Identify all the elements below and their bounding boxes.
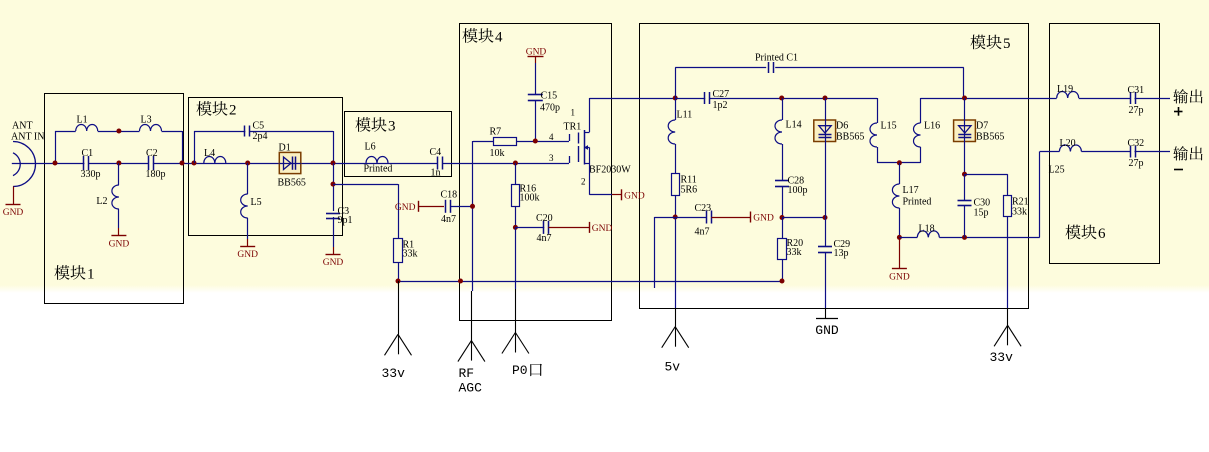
- antenna ANT input: [11, 121, 44, 187]
- node C20 junction: [513, 225, 518, 230]
- wire ground stem L5: [247, 239, 249, 246]
- svg-text:C2: C2: [146, 148, 158, 159]
- diode D7 BB565 varactor: [954, 120, 1005, 143]
- inductor L11: [668, 110, 692, 145]
- svg-text:2: 2: [229, 103, 237, 119]
- node antenna junction: [53, 161, 58, 166]
- svg-text:L25: L25: [1049, 165, 1065, 176]
- wire left branch to bus: [654, 217, 656, 288]
- wire node down to 5v (blue): [675, 217, 677, 308]
- svg-text:GND: GND: [753, 214, 774, 224]
- svg-text:5R6: 5R6: [681, 185, 698, 196]
- node D6 junction: [823, 96, 828, 101]
- wire ground stem C3: [333, 247, 335, 254]
- svg-text:5v: 5v: [665, 360, 681, 375]
- label 模块1: [54, 265, 94, 282]
- svg-text:P0: P0: [512, 363, 528, 378]
- pin 1 label: [571, 108, 576, 118]
- svg-text:BB565: BB565: [836, 132, 864, 143]
- wire main to C27: [675, 98, 705, 100]
- svg-text:27p: 27p: [1129, 158, 1144, 169]
- node C28 R20 junction: [780, 215, 785, 220]
- wire TR1 drain to pin1: [589, 98, 591, 132]
- wire L1 to L3: [98, 131, 140, 133]
- capacitor C5: [245, 121, 268, 143]
- svg-text:GND: GND: [3, 208, 24, 218]
- svg-text:3: 3: [388, 119, 396, 135]
- svg-text:L20: L20: [1060, 138, 1076, 149]
- capacitor C23: [695, 203, 712, 238]
- svg-text:L6: L6: [365, 142, 376, 153]
- wire 33v right stem: [1007, 308, 1009, 325]
- wire C29 top lead: [825, 218, 827, 247]
- svg-text:1n: 1n: [431, 168, 441, 179]
- svg-text:180p: 180p: [146, 169, 166, 180]
- capacitor C30: [958, 198, 991, 219]
- node C3 junction: [331, 161, 336, 166]
- capacitor C31: [1128, 85, 1145, 116]
- wire L15 top lead: [877, 98, 879, 123]
- svg-text:AGC: AGC: [459, 381, 483, 396]
- capacitor C1: [81, 148, 101, 180]
- wire L17 to L18 node: [899, 208, 901, 237]
- inductor L4: [204, 148, 226, 163]
- node C1-C2 junction: [116, 161, 121, 166]
- svg-text:2: 2: [581, 177, 586, 187]
- wire GND to C15: [535, 63, 537, 94]
- wire C3 branch from main line: [333, 163, 335, 211]
- connector 33v right: [990, 325, 1022, 365]
- svg-text:L11: L11: [677, 110, 693, 121]
- wire TR1 source to pin2: [589, 163, 591, 195]
- svg-text:1p2: 1p2: [713, 100, 728, 111]
- node L11 top junction: [673, 96, 678, 101]
- inductor L2: [96, 185, 119, 209]
- node L14 junction: [779, 96, 784, 101]
- inductor L18: [917, 224, 939, 238]
- svg-text:L5: L5: [251, 197, 262, 208]
- resistor R16 100k: [512, 184, 540, 207]
- svg-text:BF2030W: BF2030W: [589, 165, 631, 176]
- label 输出 + (output+): [1173, 89, 1202, 116]
- wire D6 to node: [825, 142, 827, 218]
- capacitor C20: [536, 213, 553, 244]
- wire L15 to L16 bottom: [877, 162, 921, 164]
- wire R21 top link: [965, 174, 1008, 176]
- inductor L5: [241, 194, 262, 218]
- svg-text:15p: 15p: [974, 208, 989, 219]
- node R16 junction on main line: [513, 161, 518, 166]
- svg-text:L18: L18: [919, 224, 935, 235]
- svg-text:GND: GND: [323, 258, 344, 268]
- wire D6 top lead: [825, 98, 827, 120]
- wire L11 top lead: [675, 98, 677, 120]
- wire C18 to node: [450, 206, 472, 208]
- node D7 junction: [962, 96, 967, 101]
- resistor R21 33k: [1004, 196, 1029, 218]
- wire C30 to L18 node: [964, 205, 966, 237]
- wire C27 to L15: [709, 98, 877, 100]
- wire C1-C2 node down to L2: [118, 163, 120, 185]
- capacitor C32: [1128, 138, 1145, 169]
- wire main line C2 to C4: [153, 163, 437, 165]
- svg-text:13p: 13p: [834, 248, 849, 259]
- resistor R1 33k: [394, 239, 418, 263]
- wire L16 top lead: [920, 98, 922, 123]
- wire right riser to main line: [182, 131, 184, 163]
- resistor R20 33k: [778, 238, 804, 260]
- transistor TR1 BF2030W dual-gate MOSFET: [564, 122, 632, 176]
- svg-text:Printed: Printed: [903, 197, 932, 208]
- ground GND below L2: [109, 236, 130, 250]
- capacitor C27: [705, 89, 730, 111]
- inductor L19: [1057, 84, 1079, 98]
- svg-text:470p: 470p: [540, 103, 560, 114]
- resistor R11 5R6: [672, 174, 698, 196]
- pin 3 label: [549, 153, 554, 163]
- svg-text:BB565: BB565: [976, 132, 1004, 143]
- svg-text:33v: 33v: [382, 366, 406, 381]
- module box 模块4: [460, 24, 612, 321]
- wire C1 branch right: [775, 67, 964, 69]
- svg-text:R7: R7: [490, 127, 502, 138]
- capacitor Printed C1: [755, 53, 798, 74]
- wire node to C23: [675, 217, 706, 219]
- wire C31 to output+: [1135, 98, 1171, 100]
- svg-text:6: 6: [1098, 226, 1106, 242]
- svg-text:BB565: BB565: [278, 178, 306, 189]
- wire C29 to ground: [825, 252, 827, 308]
- diode D6 BB565 varactor: [814, 120, 865, 143]
- ground GND below antenna: [3, 205, 24, 219]
- wire down to R1: [398, 184, 400, 238]
- wire R21 top lead: [1007, 174, 1009, 195]
- wire L14 top lead: [782, 98, 784, 120]
- svg-text:GND: GND: [624, 191, 645, 201]
- svg-text:1: 1: [571, 108, 576, 118]
- svg-text:C4: C4: [430, 147, 442, 158]
- wire ground stem L2: [118, 228, 120, 235]
- wire C23 to GND: [711, 217, 751, 219]
- wire AGC bus: [398, 281, 782, 283]
- wire C1 branch right riser: [963, 68, 965, 99]
- module box 模块3: [345, 112, 452, 177]
- wire C28 to node: [782, 186, 784, 218]
- svg-text:C18: C18: [441, 190, 458, 201]
- svg-text:L15: L15: [881, 121, 897, 132]
- svg-text:Printed: Printed: [364, 164, 393, 175]
- svg-text:C1: C1: [82, 148, 94, 159]
- ground GND below L5: [237, 247, 258, 261]
- capacitor C18: [441, 190, 458, 226]
- inductor L16: [914, 121, 941, 148]
- wire C1 branch left riser: [675, 68, 677, 99]
- wire L16 segment: [921, 98, 1057, 100]
- node C15 R7 junction: [533, 139, 538, 144]
- node R21 junction: [962, 172, 967, 177]
- inductor L17: [892, 184, 931, 208]
- node R1 branch junction: [331, 182, 336, 187]
- wire output corner riser: [1039, 152, 1041, 238]
- node L18 junction: [897, 235, 902, 240]
- wire C20 left: [515, 227, 544, 229]
- module box 模块6: [1050, 24, 1160, 264]
- node bus module4 junction: [458, 279, 463, 284]
- wire riser to C5 branch: [194, 131, 196, 163]
- svg-text:L14: L14: [786, 120, 802, 131]
- wire L17 top lead: [899, 163, 901, 184]
- wire R20 to bus: [782, 260, 784, 282]
- svg-text:2p4: 2p4: [253, 131, 268, 142]
- svg-text:GND: GND: [815, 323, 839, 338]
- wire L11 to R11: [675, 144, 677, 173]
- node C18 junction: [470, 204, 475, 209]
- svg-text:4n7: 4n7: [537, 233, 552, 244]
- wire 33v left stem: [398, 281, 400, 334]
- wire L14 to C28: [782, 144, 784, 180]
- wire riser at antenna node: [55, 131, 57, 163]
- resistor R7 10k: [490, 127, 517, 160]
- wire main line antenna to C1: [12, 163, 85, 165]
- ground GND left of C18: [395, 201, 419, 213]
- wire L5 to ground: [247, 218, 249, 239]
- node bus R20 junction: [780, 279, 785, 284]
- svg-text:5: 5: [1003, 36, 1011, 52]
- wire R16 top lead: [515, 163, 517, 185]
- svg-text:1: 1: [87, 267, 95, 283]
- svg-text:D1: D1: [279, 143, 291, 154]
- wire L15 bottom lead: [877, 147, 879, 163]
- ground GND below C3: [323, 255, 344, 269]
- wire R20 top lead: [782, 218, 784, 239]
- wire C32 to output-: [1135, 151, 1171, 153]
- inductor L14: [775, 120, 802, 145]
- svg-text:100p: 100p: [788, 185, 808, 196]
- wire R21 down (blue): [1007, 217, 1009, 309]
- wire C20 node to P0 connector (blue part): [515, 227, 517, 289]
- ground GND bar module5: [815, 319, 839, 339]
- wire C3 node to R1: [333, 184, 398, 186]
- svg-text:330p: 330p: [81, 169, 101, 180]
- wire pin2 GND maroon: [612, 194, 622, 196]
- svg-text:GND: GND: [395, 203, 416, 213]
- svg-text:C15: C15: [541, 91, 558, 102]
- ground GND below L17: [889, 269, 910, 283]
- svg-text:9p1: 9p1: [338, 215, 353, 226]
- svg-text:RF: RF: [459, 366, 475, 381]
- connector P0口: [502, 333, 542, 379]
- wire pin1 to module5: [590, 98, 676, 100]
- svg-text:Printed C1: Printed C1: [755, 53, 798, 64]
- wire RF AGC stem: [471, 291, 473, 341]
- inductor L3: [140, 115, 162, 132]
- svg-text:GND: GND: [109, 239, 130, 249]
- wire C5 branch right: [249, 131, 333, 133]
- node module2 input: [192, 161, 197, 166]
- wire D7 to R21 node: [964, 142, 966, 175]
- svg-text:27p: 27p: [1129, 105, 1144, 116]
- wire R1 to bus: [398, 262, 400, 281]
- ground GND right of C20: [590, 222, 613, 234]
- svg-text:L4: L4: [204, 148, 215, 159]
- svg-text:10k: 10k: [490, 148, 505, 159]
- wire to C30: [964, 174, 966, 200]
- svg-text:4n7: 4n7: [695, 227, 710, 238]
- svg-text:4: 4: [549, 132, 554, 142]
- wire main line C4 to TR1 gate 3: [443, 163, 570, 165]
- node L1-L3 junction: [116, 129, 121, 134]
- wire R11 to node: [675, 196, 677, 218]
- svg-text:GND: GND: [237, 250, 258, 260]
- wire L18 left lead: [899, 237, 917, 239]
- label 模块6: [1065, 225, 1106, 242]
- pin 2 label: [581, 177, 586, 187]
- wire L5 branch: [247, 163, 249, 194]
- node L17 junction: [897, 160, 902, 165]
- capacitor C28: [775, 176, 808, 197]
- inductor L6: [364, 142, 393, 175]
- label 输出 - (output-): [1173, 146, 1202, 169]
- module box 模块5: [640, 24, 1029, 309]
- svg-text:C23: C23: [695, 203, 712, 214]
- connector 5v: [662, 327, 689, 375]
- svg-text:ANT: ANT: [12, 121, 33, 132]
- svg-text:L17: L17: [903, 185, 919, 196]
- ground GND above C15: [526, 48, 547, 64]
- wire L18 to output corner: [939, 237, 1039, 239]
- wire L2 to ground: [118, 209, 120, 228]
- svg-text:GND: GND: [592, 224, 613, 234]
- wire 5v stem: [675, 308, 677, 327]
- wire GND to C18: [418, 206, 444, 208]
- svg-text:L3: L3: [141, 115, 152, 126]
- wire C5 right riser: [333, 131, 335, 163]
- node D7 C30 L18 junction: [962, 235, 967, 240]
- svg-text:4n7: 4n7: [441, 214, 456, 225]
- capacitor C29: [818, 239, 850, 259]
- inductor L1: [76, 115, 98, 132]
- wire C3 to ground: [333, 217, 335, 247]
- diode D1 BB565 varactor: [278, 143, 306, 189]
- wire R7 node down through main line to below bus: [472, 141, 474, 291]
- wire C20 to GND: [548, 227, 589, 229]
- connector 33v left: [382, 334, 412, 381]
- svg-text:D6: D6: [836, 121, 848, 132]
- node D6 C29 junction: [823, 215, 828, 220]
- wire C29 gnd stem: [825, 308, 827, 319]
- wire L19 to C31: [1079, 98, 1131, 100]
- label 模块5: [970, 35, 1010, 52]
- label L25: [1049, 165, 1065, 176]
- svg-text:D7: D7: [976, 121, 988, 132]
- svg-text:C32: C32: [1128, 138, 1145, 149]
- wire node left: [654, 217, 675, 219]
- svg-text:100k: 100k: [520, 193, 540, 204]
- wire top branch to L1: [55, 131, 76, 133]
- module box 模块2: [189, 98, 343, 236]
- svg-text:33k: 33k: [1012, 207, 1027, 218]
- node L5 junction: [245, 161, 250, 166]
- inductor L20: [1059, 138, 1081, 152]
- label 模块3: [355, 117, 395, 134]
- capacitor C15: [528, 91, 560, 114]
- wire C5 branch left: [194, 131, 245, 133]
- svg-text:ANT IN: ANT IN: [11, 132, 44, 143]
- pin 4 label: [549, 132, 554, 142]
- svg-text:L16: L16: [924, 121, 940, 132]
- wire R7 left lead: [473, 141, 493, 143]
- wire pin4 line: [516, 141, 569, 143]
- wire main line C1 to C2: [88, 163, 148, 165]
- svg-text:C20: C20: [536, 213, 553, 224]
- wire P0 stem: [515, 289, 517, 333]
- inductor L15: [870, 121, 897, 148]
- node bus R1 junction: [396, 279, 401, 284]
- svg-text:GND: GND: [889, 273, 910, 283]
- svg-text:C5: C5: [253, 121, 265, 132]
- svg-text:33k: 33k: [787, 247, 802, 258]
- svg-text:C31: C31: [1128, 85, 1145, 96]
- svg-text:33v: 33v: [990, 350, 1014, 365]
- svg-text:4: 4: [495, 30, 503, 46]
- wire to L20: [1040, 151, 1060, 153]
- ground GND right of C23: [751, 212, 775, 224]
- wire L16 bottom lead: [920, 147, 922, 163]
- wire L3 to right riser: [162, 131, 183, 133]
- capacitor C4: [430, 147, 443, 179]
- svg-text:33k: 33k: [403, 249, 418, 260]
- wire C28 node to D6 node: [782, 217, 825, 219]
- svg-text:3: 3: [549, 153, 554, 163]
- label 模块4: [462, 28, 503, 45]
- wire D7 top lead: [964, 98, 966, 120]
- connector RF AGC: [458, 341, 485, 396]
- label 模块2: [196, 101, 236, 118]
- node R11 C23 junction: [673, 215, 678, 220]
- svg-text:L1: L1: [77, 115, 88, 126]
- capacitor C2: [146, 148, 166, 180]
- wire pin2 to GND: [590, 194, 613, 196]
- wire R16 to C20 node: [515, 207, 517, 228]
- svg-text:L19: L19: [1057, 84, 1073, 95]
- wire L17 gnd stem: [899, 237, 901, 268]
- node branch rejoin: [180, 161, 185, 166]
- svg-text:L2: L2: [96, 196, 107, 207]
- module box 模块1: [45, 94, 184, 304]
- capacitor C3: [326, 206, 353, 226]
- wire L20 to C32: [1081, 151, 1130, 153]
- wire antenna to ground: [13, 187, 15, 205]
- wire C15 to pin4 line: [535, 101, 537, 142]
- wire C1 branch left: [675, 67, 766, 69]
- ground GND at pin2: [622, 189, 645, 201]
- svg-text:TR1: TR1: [564, 122, 582, 133]
